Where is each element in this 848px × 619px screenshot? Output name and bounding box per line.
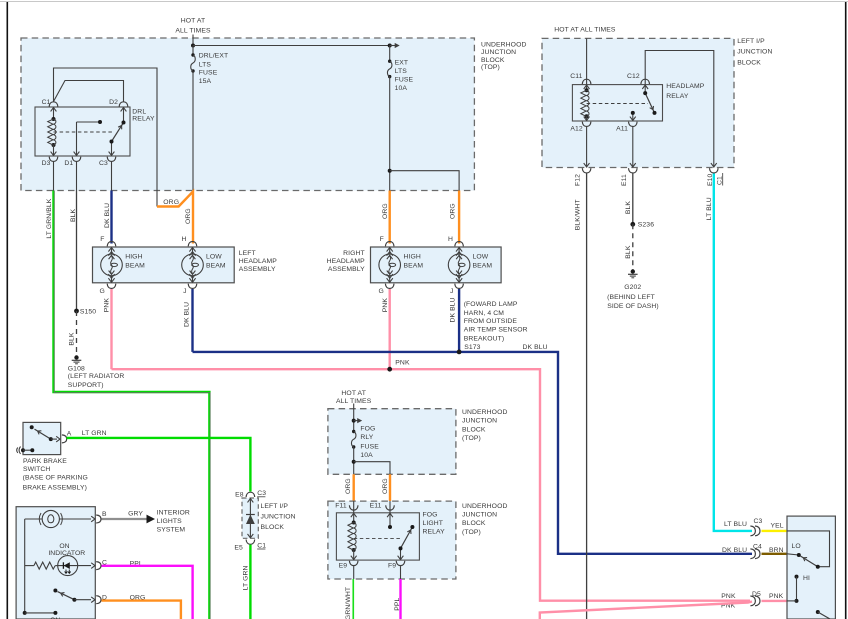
svg-text:G108: G108 xyxy=(68,366,85,373)
indicator LED xyxy=(58,556,78,576)
svg-text:LT BLU: LT BLU xyxy=(706,197,713,220)
svg-text:LEFT: LEFT xyxy=(239,250,256,257)
svg-text:HOT AT: HOT AT xyxy=(181,17,206,24)
wire bus continues arrow xyxy=(390,45,397,47)
svg-text:DRL/EXT: DRL/EXT xyxy=(199,53,228,60)
svg-text:GRN/WHT: GRN/WHT xyxy=(345,587,352,619)
DRL relay switch blade xyxy=(111,142,113,157)
svg-text:LIGHT: LIGHT xyxy=(423,520,444,527)
wire BLK dashed to ground xyxy=(76,311,78,355)
terminal D3 xyxy=(51,152,57,156)
svg-text:10A: 10A xyxy=(360,452,373,459)
svg-text:YEL: YEL xyxy=(771,523,784,530)
terminal A11 xyxy=(630,117,636,121)
svg-text:BLK/WHT: BLK/WHT xyxy=(574,199,581,230)
svg-text:BEAM: BEAM xyxy=(404,262,424,269)
svg-text:E11: E11 xyxy=(621,174,628,186)
svg-text:FUSE: FUSE xyxy=(395,77,414,84)
terminal G right xyxy=(387,278,393,282)
right headlamp assembly box xyxy=(371,247,502,283)
diode xyxy=(249,498,251,538)
svg-text:UNDERHOOD: UNDERHOOD xyxy=(462,503,507,510)
terminal G left xyxy=(108,278,114,282)
svg-text:(TOP): (TOP) xyxy=(481,64,500,71)
svg-text:DK BLU: DK BLU xyxy=(104,203,111,228)
svg-text:F12: F12 xyxy=(574,174,581,186)
headlamp relay A11 contact xyxy=(632,113,634,121)
svg-text:A11: A11 xyxy=(616,126,628,133)
svg-text:E5: E5 xyxy=(234,544,243,551)
underhood junction block (top) - dashed box xyxy=(21,38,474,191)
wire ORG to E11 fog xyxy=(389,474,391,501)
svg-text:LOW: LOW xyxy=(473,254,489,261)
svg-text:PNK: PNK xyxy=(104,298,111,313)
svg-text:C11: C11 xyxy=(570,73,582,80)
svg-text:S150: S150 xyxy=(80,309,96,316)
svg-text:DK BLU: DK BLU xyxy=(184,302,191,327)
wire BLK from D1 xyxy=(76,191,78,312)
park brake case link xyxy=(21,448,25,452)
svg-text:HOT AT ALL TIMES: HOT AT ALL TIMES xyxy=(554,27,616,34)
left headlamp assembly box xyxy=(93,247,235,283)
fog relay internal dashed link xyxy=(354,538,400,540)
fuse EXT LTS FUSE 10A xyxy=(389,46,391,62)
switch lower row xyxy=(23,611,27,615)
svg-text:BLK: BLK xyxy=(625,201,632,215)
wire fog fuse output xyxy=(353,447,355,474)
headlamp relay switch blade xyxy=(644,85,646,94)
wire C3 out xyxy=(111,162,113,191)
svg-text:FROM OUTSIDE: FROM OUTSIDE xyxy=(464,318,518,325)
svg-text:PNK: PNK xyxy=(721,593,736,600)
node PNK junction xyxy=(387,367,392,372)
svg-text:E11: E11 xyxy=(370,503,382,510)
dimmer HI contact xyxy=(795,575,799,579)
wire fog branch to E11 xyxy=(354,462,390,475)
svg-text:C3: C3 xyxy=(99,160,108,167)
svg-text:F9: F9 xyxy=(388,563,396,570)
wire PNK left G down xyxy=(110,289,112,369)
terminal C1 xyxy=(49,102,58,107)
svg-text:E8: E8 xyxy=(235,491,244,498)
page border left xyxy=(6,2,8,619)
switch blade D xyxy=(58,592,75,600)
page border right xyxy=(845,2,847,619)
DRL relay coil xyxy=(52,117,56,121)
svg-text:F: F xyxy=(100,236,104,243)
svg-text:RELAY: RELAY xyxy=(423,529,446,536)
wire DK BLU C3 to left high beam F xyxy=(110,191,112,244)
node fog branch xyxy=(352,460,356,464)
svg-text:BLK: BLK xyxy=(70,208,77,222)
svg-text:SIDE OF DASH): SIDE OF DASH) xyxy=(607,303,659,310)
node S150 xyxy=(74,309,79,314)
svg-text:ALL TIMES: ALL TIMES xyxy=(175,27,211,34)
svg-text:ORG: ORG xyxy=(382,478,389,494)
terminal C xyxy=(91,563,95,569)
terminal A12 xyxy=(584,117,590,121)
headlamp switch box xyxy=(16,507,95,619)
svg-text:A12: A12 xyxy=(570,126,583,133)
svg-text:15A: 15A xyxy=(199,78,212,85)
svg-text:HARN, 4 CM: HARN, 4 CM xyxy=(464,310,505,317)
wire BLK dashed to G202 xyxy=(632,224,634,270)
svg-text:FUSE: FUSE xyxy=(199,70,218,77)
relay FOG LIGHT RELAY box xyxy=(336,513,419,560)
underhood junction block fog relay - dashed box xyxy=(328,501,456,579)
ground G108 xyxy=(74,355,78,359)
wire bus to EXT fuse xyxy=(193,45,390,47)
bulb HIGH BEAM left xyxy=(111,247,113,254)
wire PNK second from bottom xyxy=(540,602,752,619)
svg-text:UNDERHOOD: UNDERHOOD xyxy=(481,42,526,49)
svg-text:JUNCTION: JUNCTION xyxy=(261,513,296,520)
terminal C12 xyxy=(641,79,650,84)
svg-text:ORG: ORG xyxy=(450,203,457,219)
terminal C3 xyxy=(109,152,115,156)
svg-text:JUNCTION: JUNCTION xyxy=(737,49,772,56)
svg-text:HEADLAMP: HEADLAMP xyxy=(666,83,705,90)
fog relay coil feed xyxy=(351,513,357,517)
wire EXT fuse output xyxy=(389,77,391,191)
svg-text:INTERIOR: INTERIOR xyxy=(157,509,190,516)
underhood junction block fog fuse - dashed box xyxy=(328,409,456,475)
svg-text:PPL: PPL xyxy=(394,598,401,611)
bulb LOW BEAM right xyxy=(458,247,460,254)
svg-text:(LEFT RADIATOR: (LEFT RADIATOR xyxy=(68,373,125,380)
wire BLK from E11 xyxy=(632,174,634,225)
terminal B xyxy=(91,516,95,522)
svg-text:PARK BRAKE: PARK BRAKE xyxy=(23,458,67,465)
svg-text:LO: LO xyxy=(792,543,801,550)
svg-text:HI: HI xyxy=(803,575,810,582)
terminal C11 xyxy=(582,79,591,84)
svg-text:RLY: RLY xyxy=(360,434,373,441)
svg-text:C3: C3 xyxy=(257,490,266,497)
svg-text:DK BLU: DK BLU xyxy=(523,344,548,351)
terminal D xyxy=(91,597,95,603)
fog feed arrow xyxy=(354,420,359,422)
svg-text:LT GRN: LT GRN xyxy=(82,430,107,437)
page border top xyxy=(0,1,848,3)
node S236 xyxy=(630,222,635,227)
svg-text:LTS: LTS xyxy=(395,68,408,75)
wire PNK horizontal run xyxy=(112,369,751,601)
terminal F12 xyxy=(584,163,590,167)
wire DRL relay C1-D2 link xyxy=(54,81,124,102)
ground G202 xyxy=(631,269,635,273)
wire DK BLU right J down xyxy=(458,289,460,352)
svg-text:HEADLAMP: HEADLAMP xyxy=(239,258,278,265)
fuse FOG RLY FUSE 10A xyxy=(352,430,355,433)
svg-text:SWITCH: SWITCH xyxy=(23,466,50,473)
svg-text:G202: G202 xyxy=(624,284,641,291)
svg-text:BLK: BLK xyxy=(69,332,76,346)
svg-text:HIGH: HIGH xyxy=(404,254,421,261)
svg-text:D3: D3 xyxy=(42,160,51,167)
wire D3 out xyxy=(53,162,55,191)
svg-text:E9: E9 xyxy=(339,563,348,570)
svg-text:FOG: FOG xyxy=(423,511,438,518)
svg-text:FOG: FOG xyxy=(360,426,375,433)
svg-text:D2: D2 xyxy=(109,99,118,106)
svg-text:BEAM: BEAM xyxy=(473,262,493,269)
bulb LOW BEAM left xyxy=(192,247,194,254)
svg-text:JUNCTION: JUNCTION xyxy=(481,49,516,56)
wire hot feed into box xyxy=(192,35,194,46)
svg-text:SYSTEM: SYSTEM xyxy=(157,526,186,533)
park brake switch box xyxy=(23,422,61,454)
svg-text:C1: C1 xyxy=(42,99,51,106)
left I/P junction block - dashed box xyxy=(542,38,734,167)
terminal E5 xyxy=(246,540,255,545)
svg-text:10A: 10A xyxy=(395,85,408,92)
svg-text:AIR TEMP SENSOR: AIR TEMP SENSOR xyxy=(464,327,528,334)
svg-text:SUPPORT): SUPPORT) xyxy=(68,382,104,389)
wire PNK right G down xyxy=(389,289,391,369)
svg-text:BREAKOUT): BREAKOUT) xyxy=(464,336,505,343)
wire ORG to F11 xyxy=(353,474,355,501)
svg-text:ASSEMBLY: ASSEMBLY xyxy=(239,266,276,273)
svg-text:BEAM: BEAM xyxy=(206,262,226,269)
terminal J left xyxy=(189,278,195,282)
svg-text:BRAKE ASSEMBLY): BRAKE ASSEMBLY) xyxy=(23,484,87,491)
svg-text:G: G xyxy=(100,288,105,295)
svg-text:(FOWARD LAMP: (FOWARD LAMP xyxy=(464,301,518,308)
park brake switch contacts xyxy=(30,425,34,429)
svg-text:RIGHT: RIGHT xyxy=(343,250,365,257)
svg-text:BLOCK: BLOCK xyxy=(462,427,486,434)
svg-text:C12: C12 xyxy=(627,73,640,80)
svg-text:H: H xyxy=(181,236,186,243)
svg-text:G: G xyxy=(379,288,384,295)
svg-text:(BASE OF PARKING: (BASE OF PARKING xyxy=(23,475,88,482)
svg-text:RELAY: RELAY xyxy=(132,115,155,122)
svg-text:C1: C1 xyxy=(257,542,266,549)
node EXT fuse branch xyxy=(388,169,392,173)
relay HEADLAMP RELAY box xyxy=(572,85,662,121)
svg-text:D1: D1 xyxy=(64,160,73,167)
dimmer blade xyxy=(800,556,818,567)
svg-text:BLK: BLK xyxy=(625,245,632,259)
dimmer LO contact xyxy=(787,554,799,555)
svg-text:JUNCTION: JUNCTION xyxy=(462,512,497,519)
switch internal rail xyxy=(24,519,26,613)
svg-text:JUNCTION: JUNCTION xyxy=(462,418,497,425)
wire fog feed xyxy=(353,404,355,432)
svg-text:ASSEMBLY: ASSEMBLY xyxy=(328,266,365,273)
svg-text:S173: S173 xyxy=(464,344,480,351)
svg-text:BLOCK: BLOCK xyxy=(261,524,285,531)
indicator resistor xyxy=(25,565,34,567)
interior lights arrow xyxy=(147,515,156,524)
wire A11 to E11 xyxy=(632,127,634,168)
dimmer lower blade partial xyxy=(816,610,820,614)
wire A12 to F12 xyxy=(586,127,588,168)
svg-text:FUSE: FUSE xyxy=(360,444,379,451)
svg-text:H: H xyxy=(448,236,453,243)
DRL relay contact D1 arm xyxy=(76,122,78,156)
svg-text:ORG: ORG xyxy=(163,199,179,206)
wire D1 out xyxy=(76,162,78,191)
terminal E9 xyxy=(351,556,357,560)
svg-text:BEAM: BEAM xyxy=(125,262,145,269)
bulb HIGH BEAM right xyxy=(389,247,391,254)
svg-text:UNDERHOOD: UNDERHOOD xyxy=(462,409,507,416)
wire LT GRN from E5 xyxy=(249,545,251,619)
svg-text:S236: S236 xyxy=(638,222,654,229)
svg-text:LTS: LTS xyxy=(199,61,212,68)
svg-text:BLOCK: BLOCK xyxy=(481,57,505,64)
node fog feed junction xyxy=(352,419,356,423)
relay DRL RELAY box xyxy=(35,107,130,156)
fog relay coil xyxy=(352,521,356,525)
svg-text:F: F xyxy=(380,236,384,243)
terminal F9 xyxy=(398,556,404,560)
wire LT BLU from E10 xyxy=(714,174,752,531)
svg-text:HEADLAMP: HEADLAMP xyxy=(327,258,366,265)
terminal E11 xyxy=(630,163,636,167)
wire BLK/WHT from F12 xyxy=(586,174,588,619)
svg-text:(BEHIND LEFT: (BEHIND LEFT xyxy=(607,294,655,301)
lamp symbol xyxy=(25,518,42,520)
terminal E10 xyxy=(711,163,717,167)
node EXT fuse top xyxy=(388,44,392,48)
svg-text:HIGH: HIGH xyxy=(125,254,142,261)
terminal A xyxy=(62,435,67,443)
headlamp relay internal dashed link xyxy=(587,103,648,105)
headlamp relay coil xyxy=(586,85,588,91)
terminal E8 xyxy=(246,492,255,497)
svg-text:LT GRN: LT GRN xyxy=(243,565,250,590)
terminal D2 xyxy=(119,102,128,107)
wire GRN/WHT from E9 xyxy=(353,566,355,579)
svg-text:LEFT I/P: LEFT I/P xyxy=(737,38,765,45)
wire DRL fuse output xyxy=(192,71,194,191)
svg-text:PNK: PNK xyxy=(395,360,410,367)
svg-text:C3: C3 xyxy=(754,518,763,525)
dimmer HI leg xyxy=(796,577,798,601)
svg-text:RELAY: RELAY xyxy=(666,93,689,100)
svg-text:A: A xyxy=(67,431,72,438)
svg-text:LT GRN/BLK: LT GRN/BLK xyxy=(46,198,53,238)
svg-text:J: J xyxy=(450,288,454,295)
dimmer YEL internal loop xyxy=(787,531,830,567)
headlamp dimmer switch box xyxy=(787,516,835,619)
svg-text:EXT: EXT xyxy=(395,59,409,66)
svg-text:ON: ON xyxy=(59,543,69,550)
left I/P junction block diode - dashed box xyxy=(242,498,258,538)
svg-text:PNK: PNK xyxy=(769,593,784,600)
terminal J right xyxy=(456,278,462,282)
node S173 xyxy=(457,350,462,355)
svg-text:DK BLU: DK BLU xyxy=(722,547,747,554)
svg-text:J: J xyxy=(183,288,187,295)
svg-text:LEFT I/P: LEFT I/P xyxy=(261,503,289,510)
svg-text:(TOP): (TOP) xyxy=(462,529,481,536)
svg-text:BLOCK: BLOCK xyxy=(462,520,486,527)
wire DRL relay feed loop xyxy=(54,68,158,207)
fog relay switch blade xyxy=(400,548,402,560)
node bus junction xyxy=(191,44,195,48)
terminal D1 xyxy=(74,152,80,156)
svg-text:PNK: PNK xyxy=(382,298,389,313)
svg-text:(TOP): (TOP) xyxy=(462,435,481,442)
wire DK BLU left J down xyxy=(191,289,193,352)
svg-text:ORG: ORG xyxy=(185,208,192,224)
svg-text:GRY: GRY xyxy=(128,510,143,517)
DRL relay internal dashed link xyxy=(54,131,114,133)
wire C12 loop to E10 xyxy=(645,51,714,168)
svg-text:DK BLU: DK BLU xyxy=(450,297,457,322)
wire PPL from F9 xyxy=(400,566,402,579)
svg-text:LT BLU: LT BLU xyxy=(724,521,747,528)
wire ORG jog to left low beam H xyxy=(157,192,193,244)
wire C11 feed xyxy=(586,38,588,84)
wire DK BLU horizontal run xyxy=(193,352,753,554)
svg-text:LIGHTS: LIGHTS xyxy=(157,518,183,525)
svg-text:ORG: ORG xyxy=(382,203,389,219)
svg-text:BLOCK: BLOCK xyxy=(737,60,761,67)
wire branch to right low beam xyxy=(390,171,459,191)
fog relay E11 contact xyxy=(387,513,393,517)
wire LT GRN/BLK from D3 xyxy=(54,191,210,619)
svg-text:B: B xyxy=(102,511,107,518)
wire ORG right high beam xyxy=(389,191,391,244)
fuse DRL/EXT LTS FUSE 15A xyxy=(192,46,194,56)
svg-text:ORG: ORG xyxy=(345,478,352,494)
svg-text:F11: F11 xyxy=(335,503,347,510)
wire ORG right low beam xyxy=(458,191,460,244)
svg-text:HOT AT: HOT AT xyxy=(341,390,366,397)
svg-text:LOW: LOW xyxy=(206,254,222,261)
